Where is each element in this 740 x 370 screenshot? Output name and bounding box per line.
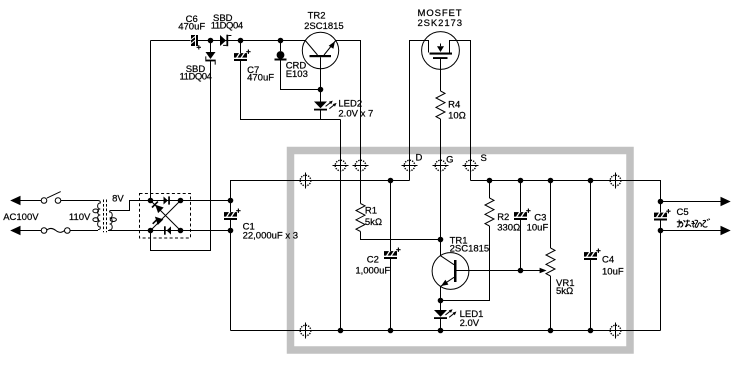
svg-text:2SC1815: 2SC1815	[450, 243, 490, 254]
svg-text:R2: R2	[497, 212, 509, 223]
svg-text:D: D	[416, 152, 423, 163]
svg-text:10uF: 10uF	[602, 266, 624, 277]
svg-text:5kΩ: 5kΩ	[556, 286, 573, 297]
svg-text:C2: C2	[367, 255, 379, 266]
svg-text:10uF: 10uF	[527, 222, 549, 233]
svg-text:1,000uF: 1,000uF	[355, 266, 390, 277]
svg-text:R4: R4	[448, 100, 460, 111]
svg-text:2.0V: 2.0V	[460, 318, 480, 329]
svg-text:S: S	[481, 153, 487, 164]
svg-text:2SC1815: 2SC1815	[304, 21, 344, 32]
svg-text:2SK2173: 2SK2173	[418, 18, 463, 29]
svg-text:470uF: 470uF	[247, 72, 274, 83]
svg-text:5kΩ: 5kΩ	[365, 217, 382, 228]
svg-text:10Ω: 10Ω	[448, 110, 466, 121]
svg-text:470uF: 470uF	[178, 22, 205, 33]
svg-text:22,000uF x 3: 22,000uF x 3	[243, 231, 298, 242]
svg-text:G: G	[446, 155, 453, 166]
svg-text:MOSFET: MOSFET	[418, 8, 463, 19]
svg-text:AC100V: AC100V	[3, 212, 39, 223]
svg-text:11DQ04: 11DQ04	[211, 21, 243, 32]
svg-text:330Ω: 330Ω	[497, 222, 520, 233]
svg-text:2.0V x 7: 2.0V x 7	[338, 108, 373, 119]
svg-text:110V: 110V	[69, 212, 91, 223]
svg-text:R1: R1	[365, 206, 377, 217]
svg-text:C5: C5	[677, 207, 689, 218]
svg-text:8V: 8V	[112, 193, 124, 204]
svg-text:C4: C4	[602, 254, 614, 265]
svg-text:11DQ04: 11DQ04	[180, 72, 212, 83]
svg-text:E103: E103	[286, 69, 308, 80]
